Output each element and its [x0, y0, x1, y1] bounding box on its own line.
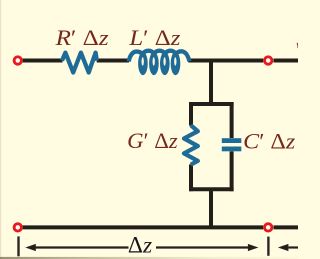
- wire: shunt stub to bottom wire: [209, 189, 213, 227]
- inductor L'dz coil: [129, 51, 190, 62]
- wire: bottom right to edge: [274, 225, 299, 229]
- wire: left leg lower (below G): [189, 164, 193, 191]
- conductance G'dz zigzag: [184, 125, 198, 164]
- wire: shunt branch vertical from top wire: [209, 61, 213, 103]
- terminal top-left: [14, 57, 21, 64]
- wire: right leg lower (below C): [230, 151, 234, 191]
- wire: top left segment: [23, 59, 63, 63]
- wire: left leg upper (above G): [189, 102, 193, 126]
- resistor R'dz zigzag: [62, 53, 97, 73]
- wire: top right to edge: [274, 59, 299, 63]
- wire: right leg upper (above C): [230, 102, 234, 138]
- svg-text:G′ Δz: G′ Δz: [127, 128, 178, 153]
- page left edge shading: [0, 0, 1, 259]
- wire: top between inductor and right terminal: [188, 59, 263, 63]
- capacitor C'dz plate bottom: [222, 147, 242, 152]
- dimension arrow right (points right): [156, 246, 249, 248]
- terminal bottom-right: [265, 224, 272, 231]
- capacitor C'dz plate top: [222, 138, 242, 143]
- clipped red label fragment at right edge: [297, 44, 299, 48]
- wire: shunt rectangle top bar: [189, 102, 234, 106]
- svg-text:C′ Δz: C′ Δz: [243, 128, 295, 153]
- dimension arrow left (points left): [35, 246, 129, 248]
- svg-text:Δz: Δz: [128, 232, 152, 257]
- next-section arrow entering from right edge (points left): [288, 246, 298, 248]
- dimension tick left: [17, 236, 19, 256]
- terminal top-right: [265, 57, 272, 64]
- wire: bottom left to right terminal: [23, 225, 264, 229]
- terminal bottom-left: [14, 224, 21, 231]
- svg-text:L′ Δz: L′ Δz: [128, 25, 181, 50]
- wire: shunt rectangle bottom bar: [189, 187, 234, 191]
- wire: top between resistor and inductor: [97, 59, 129, 63]
- svg-text:R′ Δz: R′ Δz: [54, 25, 109, 50]
- dimension tick right: [267, 237, 269, 256]
